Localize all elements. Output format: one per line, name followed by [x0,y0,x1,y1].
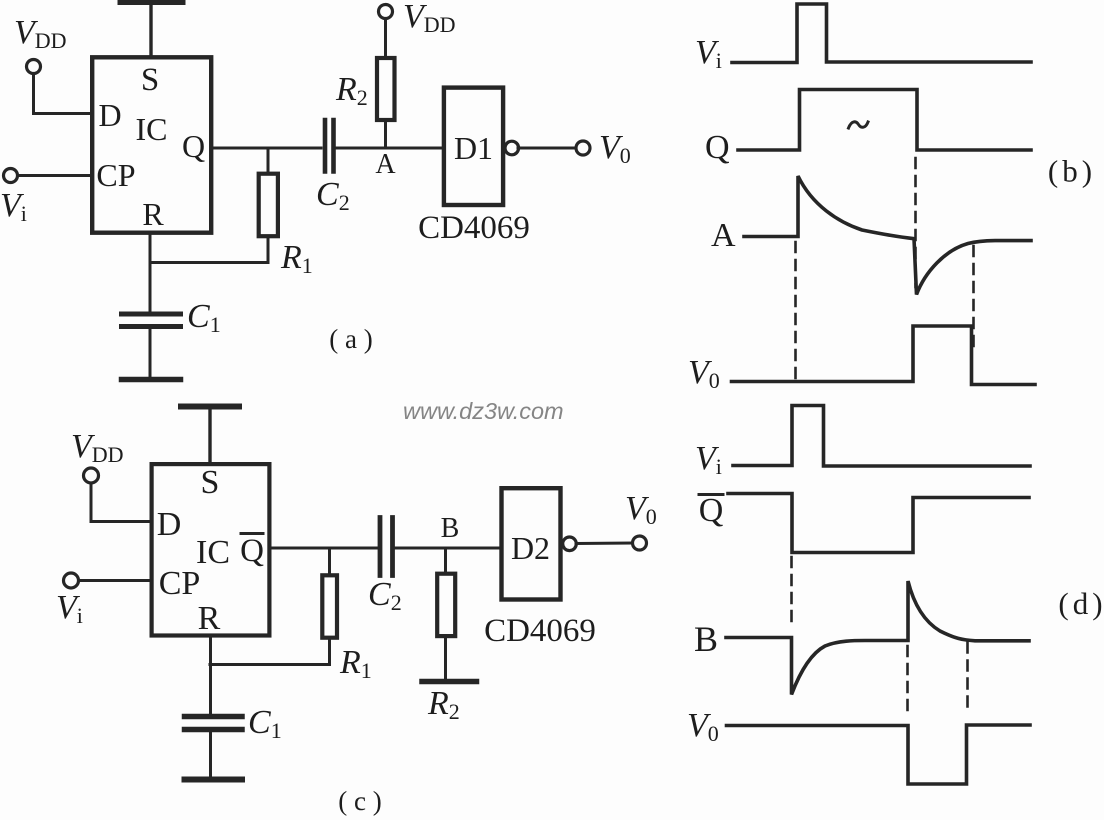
svg-text:S: S [141,62,159,98]
wire VDD to D pin [34,74,91,114]
overbar of Qbar pin [241,532,263,535]
ground bar (c) [185,777,243,783]
waveform Qbar (d) [728,494,1029,553]
svg-text:R: R [198,600,221,637]
inverter D2 box [502,488,561,599]
wire node B down to R2 (c) [444,548,447,572]
svg-text:CP: CP [96,157,135,193]
svg-text:CP: CP [159,565,201,602]
svg-text:IC: IC [196,534,230,571]
svg-text:IC: IC [136,111,168,147]
dashed line t2 (b) [914,158,917,287]
D flip-flop IC box (a) [92,57,211,232]
svg-text:Q: Q [705,129,730,166]
wire R2 to node A [384,122,387,148]
dashed line t1 (b) [794,242,797,379]
terminal VDD (a) [27,60,41,74]
dashed line t2 (d) [906,646,909,718]
inverter bubble D2 [563,537,577,551]
wire R pin to C1 (c) [209,637,212,714]
svg-text:CD4069: CD4069 [418,210,530,246]
ground bar R2 (c) [422,679,477,685]
wire C1 to ground (a) [149,329,152,377]
wire VDD to R2 [384,19,387,57]
svg-text:(d): (d) [1058,586,1104,621]
wire VDD to D pin (c) [91,483,150,522]
wire Vi to CP pin [18,174,91,177]
dashed line t1 (d) [790,557,793,626]
wire R2 to ground (c) [444,638,447,679]
wire S pin to power bar (c) [208,409,211,463]
terminal V0 (c) [633,536,647,550]
svg-text:D2: D2 [511,530,550,566]
svg-text:( c ): ( c ) [338,786,381,816]
capacitor C1 (c) [185,717,243,730]
waveform Vi (b) [732,4,1031,63]
svg-text:B: B [441,513,460,544]
waveform B (d) [726,581,1029,695]
svg-text:CD4069: CD4069 [484,613,596,649]
wire R1 bottom [150,239,268,263]
svg-text:D: D [98,97,121,133]
terminal Vi (a) [4,169,18,183]
wire S pin to power bar [149,5,152,57]
power bar top (c) [181,404,239,410]
wire D2 to output terminal [576,542,633,546]
terminal VDD (c) [84,468,99,483]
wire R pin down to C1 (a) [149,233,152,312]
waveform Vi (d) [733,406,1030,467]
waveform V0 (b) [732,326,1036,385]
inverter D1 box [444,88,503,205]
capacitor C1 (a) [122,314,181,327]
waveform A (b) [744,176,1031,295]
waveform V0 (d) [727,725,1031,784]
wire Q output to C2 [212,147,321,150]
wire R1 bottom (c) [210,640,330,665]
svg-text:D: D [157,506,182,543]
inverter bubble D1 [505,141,519,155]
svg-text:(b): (b) [1048,154,1096,189]
svg-text:Q: Q [699,492,724,529]
wire C2 to D2 through node B [395,547,500,550]
wire Q node down to R1 (a) [267,148,270,172]
terminal VDD above R2 (a) [379,5,393,19]
dashed line t3 (b) [972,246,975,346]
resistor R2 (c) [437,574,455,636]
svg-text:B: B [694,619,718,659]
terminal Vi (c) [64,573,79,588]
terminal V0 (a) [576,141,590,155]
svg-text:Q: Q [182,128,205,164]
wire Vi to CP (c) [79,579,151,582]
resistor R1 (c) [322,575,337,637]
waveform Q (b) [738,90,1031,151]
wire D1 to output terminal [518,147,576,150]
tilde mark on Q pulse [849,122,869,128]
wire Qbar output to C2 (c) [272,547,378,550]
wire C2 to D1 through node A [336,147,443,150]
resistor R1 (a) [259,174,278,237]
capacitor C2 (a) [325,120,334,172]
wire down to R1 (c) [328,548,331,573]
D flip-flop IC box (c) [152,464,270,635]
svg-text:( a ): ( a ) [329,324,372,354]
svg-text:S: S [201,464,220,501]
overbar of Qbar label (d) [699,493,723,496]
resistor R2 (a) [377,58,395,120]
svg-text:A: A [375,149,396,180]
dashed line t3 (d) [966,643,969,713]
wire C1 to ground (c) [209,732,212,777]
ground bar (a) [122,377,181,383]
power bar top (a) [120,0,183,5]
capacitor C2 (c) [380,518,393,576]
svg-text:D1: D1 [454,130,493,166]
svg-text:R: R [142,196,164,232]
svg-text:Q: Q [240,533,264,569]
svg-text:A: A [711,217,736,254]
svg-text:www.dz3w.com: www.dz3w.com [403,398,564,424]
